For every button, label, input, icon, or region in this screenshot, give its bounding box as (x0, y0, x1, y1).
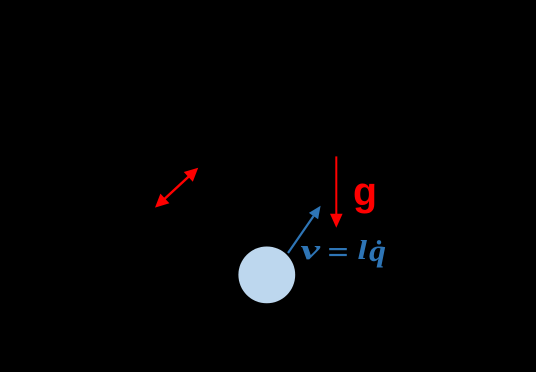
red double-headed arc-length arrow (155, 168, 198, 208)
red gravity arrow (vertical) (330, 156, 343, 227)
pendulum bob (light blue circle) (238, 247, 295, 304)
svg-text:v: v (301, 234, 322, 266)
equation v = l q-dot (301, 233, 387, 268)
svg-text:q: q (369, 233, 386, 268)
svg-text:g: g (353, 170, 377, 214)
svg-text:l: l (358, 234, 368, 265)
blue velocity arrow (288, 206, 321, 253)
